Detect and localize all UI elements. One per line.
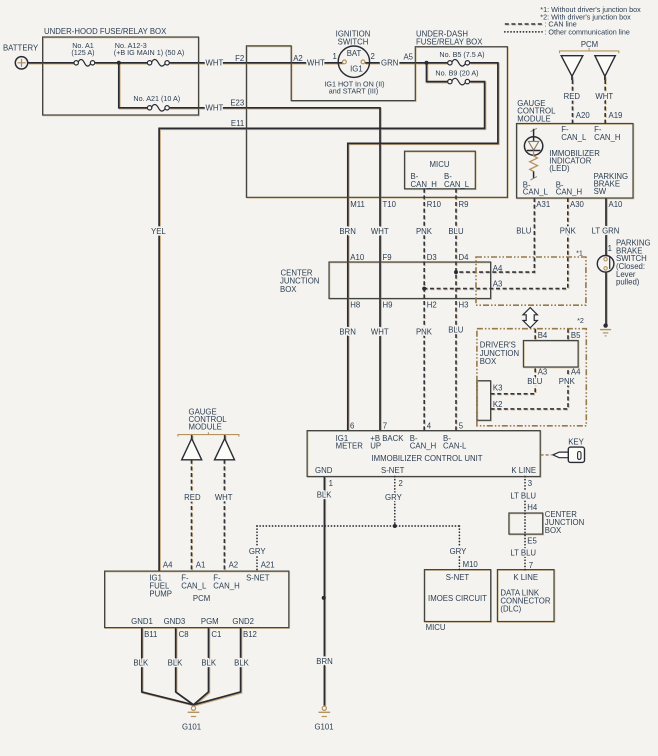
svg-text:MODULE: MODULE bbox=[517, 114, 550, 123]
svg-text:PNK: PNK bbox=[559, 377, 576, 386]
svg-text:A20: A20 bbox=[576, 111, 591, 120]
svg-text:K3: K3 bbox=[493, 383, 503, 392]
svg-text:BRN: BRN bbox=[339, 327, 355, 336]
svg-text:SWITCH: SWITCH bbox=[338, 37, 369, 46]
svg-text:BRN: BRN bbox=[339, 227, 355, 236]
svg-text:B4: B4 bbox=[538, 331, 548, 340]
svg-text:A4: A4 bbox=[493, 264, 503, 273]
svg-text:LT GRN: LT GRN bbox=[592, 226, 620, 235]
svg-text:2: 2 bbox=[371, 52, 375, 61]
svg-text:WHT: WHT bbox=[215, 493, 233, 502]
svg-text:PCM: PCM bbox=[193, 594, 210, 603]
LED bottom lead bbox=[533, 171, 535, 178]
gauge module partial box dashed line bbox=[178, 432, 239, 436]
svg-text:4: 4 bbox=[427, 421, 432, 430]
svg-text:KEY: KEY bbox=[568, 438, 584, 447]
svg-text:D4: D4 bbox=[459, 253, 470, 262]
svg-text:GND3: GND3 bbox=[164, 617, 186, 626]
parking brake switch circle bbox=[597, 255, 614, 272]
svg-text:UNDER-HOOD FUSE/RELAY BOX: UNDER-HOOD FUSE/RELAY BOX bbox=[44, 27, 167, 36]
svg-text:H3: H3 bbox=[459, 300, 469, 309]
svg-text:B5: B5 bbox=[571, 331, 581, 340]
svg-text:A19: A19 bbox=[609, 111, 623, 120]
fuse A1 bbox=[74, 60, 95, 67]
svg-text:MICU: MICU bbox=[430, 160, 450, 169]
svg-text:C1: C1 bbox=[211, 630, 221, 639]
svg-text:BRN: BRN bbox=[316, 657, 332, 666]
svg-text:BLK: BLK bbox=[168, 658, 184, 667]
svg-text:No. A21 (10 A): No. A21 (10 A) bbox=[133, 94, 180, 103]
svg-text:PNK: PNK bbox=[560, 226, 577, 235]
svg-text:METER: METER bbox=[336, 442, 364, 451]
svg-text:CAN-L: CAN-L bbox=[443, 442, 467, 451]
svg-text:(+B IG MAIN 1) (50 A): (+B IG MAIN 1) (50 A) bbox=[114, 48, 185, 57]
svg-text:No. B9 (20 A): No. B9 (20 A) bbox=[435, 68, 478, 77]
svg-text:F2: F2 bbox=[235, 54, 244, 63]
svg-text:GRY: GRY bbox=[249, 547, 267, 556]
svg-text:RED: RED bbox=[184, 493, 201, 502]
ignition switch circle bbox=[338, 46, 369, 77]
svg-text:T10: T10 bbox=[383, 200, 397, 209]
svg-text:(DLC): (DLC) bbox=[500, 605, 521, 614]
svg-text:2: 2 bbox=[399, 479, 403, 488]
svg-text:R10: R10 bbox=[427, 200, 442, 209]
svg-text:G101: G101 bbox=[314, 723, 333, 732]
svg-text:(125 A): (125 A) bbox=[71, 48, 94, 57]
svg-text:E11: E11 bbox=[231, 119, 244, 128]
svg-text:H8: H8 bbox=[350, 300, 360, 309]
svg-text:1: 1 bbox=[608, 244, 612, 253]
fuse A21 bbox=[147, 105, 169, 112]
svg-text:PNK: PNK bbox=[416, 227, 433, 236]
svg-text:CAN_L: CAN_L bbox=[561, 133, 587, 142]
svg-text:RED: RED bbox=[564, 92, 581, 101]
svg-text:WHT: WHT bbox=[371, 327, 389, 336]
parking brake switch terminal 2 bbox=[604, 267, 607, 270]
svg-text:BLK: BLK bbox=[317, 490, 333, 499]
svg-text:CAN_H: CAN_H bbox=[410, 442, 436, 451]
parking brake switch contact bbox=[609, 257, 611, 269]
svg-text:1: 1 bbox=[332, 52, 336, 61]
svg-text:BLU: BLU bbox=[448, 227, 464, 236]
svg-text:WHT: WHT bbox=[371, 227, 389, 236]
svg-text:and START (III): and START (III) bbox=[329, 87, 379, 96]
svg-text:B11: B11 bbox=[144, 630, 157, 639]
svg-text:IG1: IG1 bbox=[350, 64, 363, 73]
svg-text:CAN_H: CAN_H bbox=[556, 188, 582, 197]
svg-text:7: 7 bbox=[383, 421, 387, 430]
svg-text:BAT: BAT bbox=[347, 49, 362, 58]
svg-text:MODULE: MODULE bbox=[189, 423, 222, 432]
svg-text:A10: A10 bbox=[609, 200, 624, 209]
svg-text:*1: *1 bbox=[576, 248, 583, 257]
svg-text:S-NET: S-NET bbox=[446, 573, 470, 582]
dash-dot box variant 2 with driver's junction box bbox=[477, 329, 586, 426]
parking brake switch terminal 1 bbox=[604, 258, 607, 261]
svg-text:IMMOBILIZER CONTROL UNIT: IMMOBILIZER CONTROL UNIT bbox=[371, 454, 482, 463]
svg-text:A4: A4 bbox=[571, 367, 581, 376]
svg-text:6: 6 bbox=[350, 421, 354, 430]
svg-text:M11: M11 bbox=[350, 200, 365, 209]
dash-dot box variant 1 without driver's junction box bbox=[476, 257, 586, 305]
svg-text:SW: SW bbox=[594, 187, 607, 196]
immobilizer indicator LED top lead bbox=[531, 128, 537, 131]
svg-text:A1: A1 bbox=[196, 561, 206, 570]
svg-text:BLU: BLU bbox=[527, 377, 543, 386]
svg-text:H4: H4 bbox=[527, 503, 538, 512]
svg-text:GND1: GND1 bbox=[131, 617, 153, 626]
svg-text:PNK: PNK bbox=[416, 327, 433, 336]
node D4 junction dot bbox=[454, 270, 458, 274]
svg-text:CAN_L: CAN_L bbox=[444, 180, 470, 189]
svg-text:A21: A21 bbox=[261, 561, 275, 570]
svg-text:WHT: WHT bbox=[206, 59, 224, 68]
svg-text:H9: H9 bbox=[383, 300, 393, 309]
svg-text:No. B5 (7.5 A): No. B5 (7.5 A) bbox=[439, 50, 484, 59]
PCM CAN terminator triangle 2 bbox=[595, 56, 615, 77]
svg-text:BOX: BOX bbox=[480, 357, 497, 366]
gauge module triangle 1 bbox=[182, 439, 202, 460]
svg-text:A30: A30 bbox=[570, 200, 585, 209]
double arrow between variant boxes bbox=[523, 308, 537, 328]
svg-text:(LED): (LED) bbox=[549, 164, 570, 173]
svg-text:LT BLU: LT BLU bbox=[510, 548, 536, 557]
svg-text:E23: E23 bbox=[230, 99, 244, 108]
svg-text:7: 7 bbox=[529, 561, 533, 570]
svg-text:BLK: BLK bbox=[201, 658, 217, 667]
LED triangle bbox=[528, 141, 538, 150]
svg-text:G101: G101 bbox=[182, 723, 201, 732]
svg-text:CAN_H: CAN_H bbox=[213, 582, 239, 591]
LED resistor zigzag bbox=[530, 151, 538, 172]
fuse B5 bbox=[448, 60, 470, 67]
svg-text:: Other communication line: : Other communication line bbox=[544, 27, 630, 36]
svg-text:GND: GND bbox=[315, 466, 333, 475]
battery symbol bbox=[15, 57, 27, 69]
PCM bracket bbox=[560, 48, 619, 53]
LED cathode bar bbox=[527, 150, 541, 152]
svg-text:CAN_H: CAN_H bbox=[411, 180, 437, 189]
key symbol bbox=[553, 447, 585, 462]
svg-text:PGM: PGM bbox=[201, 617, 219, 626]
fuse A12-3 bbox=[147, 60, 169, 67]
svg-text:pulled): pulled) bbox=[616, 278, 640, 287]
node B junction dot bbox=[425, 61, 429, 65]
ignition switch terminal IG1 bbox=[361, 60, 365, 64]
svg-text:K LINE: K LINE bbox=[513, 573, 538, 582]
svg-text:S-NET: S-NET bbox=[246, 574, 270, 583]
svg-text:BATTERY: BATTERY bbox=[3, 43, 39, 52]
immobilizer indicator LED circle bbox=[524, 137, 542, 155]
svg-text:3: 3 bbox=[528, 479, 532, 488]
svg-text:A31: A31 bbox=[536, 200, 550, 209]
fuse B9 bbox=[448, 78, 470, 85]
svg-text:BOX: BOX bbox=[545, 526, 562, 535]
svg-text:BOX: BOX bbox=[280, 285, 297, 294]
node D3 junction dot bbox=[422, 287, 426, 291]
svg-text:IMOES CIRCUIT: IMOES CIRCUIT bbox=[428, 594, 487, 603]
svg-text:GND2: GND2 bbox=[232, 617, 254, 626]
svg-text:K LINE: K LINE bbox=[511, 466, 536, 475]
ground G101 left bbox=[188, 706, 200, 716]
svg-text:K2: K2 bbox=[493, 400, 503, 409]
svg-text:A2: A2 bbox=[293, 54, 303, 63]
svg-text:CAN_H: CAN_H bbox=[594, 133, 620, 142]
PCM CAN terminator triangle 1 bbox=[561, 56, 583, 77]
svg-text:A3: A3 bbox=[538, 367, 548, 376]
svg-text:C8: C8 bbox=[179, 630, 189, 639]
svg-text:1: 1 bbox=[329, 479, 333, 488]
svg-text:BLU: BLU bbox=[516, 226, 532, 235]
ignition switch terminal BAT bbox=[343, 60, 347, 64]
svg-text:D3: D3 bbox=[427, 253, 437, 262]
svg-text:F9: F9 bbox=[383, 253, 392, 262]
svg-text:BLK: BLK bbox=[133, 658, 149, 667]
svg-text:UP: UP bbox=[370, 442, 381, 451]
svg-text:WHT: WHT bbox=[206, 103, 224, 112]
svg-text:A10: A10 bbox=[350, 253, 365, 262]
svg-text:BLU: BLU bbox=[448, 326, 464, 335]
node S-NET junction dot bbox=[393, 524, 397, 528]
svg-text:E5: E5 bbox=[527, 536, 537, 545]
svg-text:H2: H2 bbox=[427, 300, 437, 309]
svg-text:YEL: YEL bbox=[151, 227, 166, 236]
svg-text:GRY: GRY bbox=[450, 547, 468, 556]
svg-text:R9: R9 bbox=[459, 200, 469, 209]
svg-text:S-NET: S-NET bbox=[381, 466, 405, 475]
svg-text:A3: A3 bbox=[493, 279, 503, 288]
svg-text:PUMP: PUMP bbox=[149, 589, 172, 598]
node BLK BRN junction dot bbox=[322, 596, 326, 600]
svg-text:A4: A4 bbox=[163, 561, 173, 570]
svg-text:PCM: PCM bbox=[581, 40, 598, 49]
ground G101 right bbox=[319, 706, 331, 716]
node A junction dot bbox=[117, 61, 121, 65]
svg-text:B12: B12 bbox=[243, 630, 257, 639]
svg-text:LT BLU: LT BLU bbox=[510, 492, 536, 501]
svg-text:*2: *2 bbox=[577, 316, 584, 325]
svg-text:CAN_L: CAN_L bbox=[523, 188, 549, 197]
svg-text:GRY: GRY bbox=[385, 493, 403, 502]
svg-text:M10: M10 bbox=[463, 560, 479, 569]
ground parking brake switch bbox=[600, 323, 611, 336]
svg-text:WHT: WHT bbox=[307, 59, 325, 68]
svg-text:5: 5 bbox=[459, 421, 464, 430]
svg-text:CAN_L: CAN_L bbox=[181, 582, 207, 591]
svg-text:WHT: WHT bbox=[595, 92, 613, 101]
svg-text:MICU: MICU bbox=[426, 623, 446, 632]
svg-text:A5: A5 bbox=[403, 53, 413, 62]
svg-text:A2: A2 bbox=[229, 561, 239, 570]
svg-text:GRN: GRN bbox=[381, 59, 398, 68]
svg-text:FUSE/RELAY BOX: FUSE/RELAY BOX bbox=[416, 37, 483, 46]
gauge module triangle 2 bbox=[215, 439, 235, 460]
dash-dot stub to KEY bbox=[541, 454, 552, 456]
svg-text:BLK: BLK bbox=[234, 658, 250, 667]
